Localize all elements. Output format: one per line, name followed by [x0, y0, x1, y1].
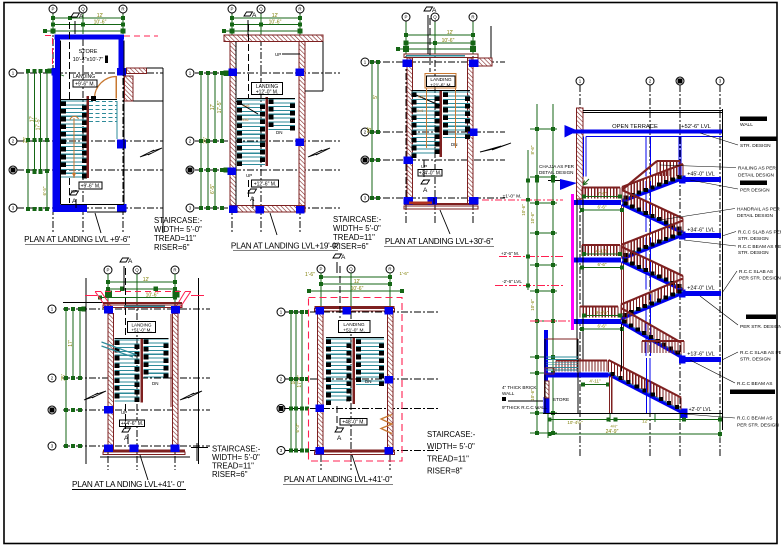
svg-text:STR. DESIGN: STR. DESIGN	[740, 357, 771, 363]
svg-text:R: R	[173, 268, 176, 273]
svg-text:A: A	[252, 12, 257, 19]
svg-text:10'-6": 10'-6"	[521, 204, 526, 216]
svg-text:+24'-0" M.: +24'-0" M.	[419, 170, 442, 176]
svg-text:RISER=8": RISER=8"	[427, 467, 463, 476]
svg-text:STR. DESIGN: STR. DESIGN	[740, 143, 771, 149]
svg-text:WIDTH= 5'-0": WIDTH= 5'-0"	[333, 224, 381, 233]
svg-text:9x6: 9x6	[243, 103, 250, 108]
svg-text:10'-6": 10'-6"	[351, 286, 364, 292]
svg-text:PLAN AT LANDING LVL+19'-0": PLAN AT LANDING LVL+19'-0"	[231, 242, 340, 251]
svg-text:STORE: STORE	[553, 397, 569, 403]
svg-text:OPEN TERRACE: OPEN TERRACE	[612, 124, 658, 130]
svg-text:RISER=6": RISER=6"	[333, 242, 369, 251]
svg-text:+48'-0" M.: +48'-0" M.	[342, 419, 365, 425]
svg-text:R: R	[471, 15, 474, 20]
svg-text:Q: Q	[81, 7, 85, 12]
svg-text:LANDING: LANDING	[73, 74, 95, 80]
svg-text:DETAIL DESIGN: DETAIL DESIGN	[738, 173, 775, 179]
svg-text:+12'-0" M.: +12'-0" M.	[256, 90, 279, 96]
svg-text:PER STR. DESIGN: PER STR. DESIGN	[737, 423, 779, 429]
svg-text:A: A	[79, 13, 84, 20]
svg-text:A: A	[337, 435, 342, 442]
svg-text:P: P	[52, 7, 55, 12]
svg-text:HANDRAIL AS PER: HANDRAIL AS PER	[737, 207, 780, 213]
svg-text:-2'-6" LVL: -2'-6" LVL	[502, 279, 522, 284]
svg-text:UP: UP	[275, 52, 281, 57]
svg-text:9'-4½": 9'-4½"	[596, 309, 609, 315]
svg-text:PLAN AT LANDING LVL+41'-0": PLAN AT LANDING LVL+41'-0"	[284, 475, 393, 484]
svg-text:TREAD=11": TREAD=11"	[154, 234, 196, 243]
svg-text:UP: UP	[246, 173, 252, 178]
svg-text:WALL: WALL	[502, 391, 515, 396]
svg-text:7'-6": 7'-6"	[598, 191, 607, 196]
svg-text:DETAIL DESIGN: DETAIL DESIGN	[737, 213, 774, 219]
svg-text:Q: Q	[259, 7, 263, 12]
svg-text:PER DESIGN: PER DESIGN	[740, 188, 770, 194]
svg-text:R.C.C SLAB AS PER: R.C.C SLAB AS PER	[738, 229, 781, 235]
svg-text:CHAJJA AS PER: CHAJJA AS PER	[539, 164, 575, 169]
svg-text:9"THICK R.C.C WALL: 9"THICK R.C.C WALL	[502, 405, 548, 410]
svg-text:STR. DESIGN: STR. DESIGN	[738, 250, 769, 256]
svg-text:4½": 4½"	[611, 424, 619, 429]
svg-text:A: A	[341, 254, 346, 261]
svg-text:6'-6": 6'-6"	[598, 205, 607, 210]
svg-text:RISER=6": RISER=6"	[154, 243, 190, 252]
svg-text:STR. DESIGN: STR. DESIGN	[738, 236, 769, 242]
svg-text:+24'-0" LVL: +24'-0" LVL	[687, 286, 715, 292]
svg-text:+34'-6" LVL: +34'-6" LVL	[687, 228, 715, 234]
svg-text:Q: Q	[433, 15, 437, 20]
svg-text:DN: DN	[276, 130, 283, 135]
svg-text:4'-11": 4'-11"	[589, 379, 601, 384]
svg-text:10'-4"x10'-7": 10'-4"x10'-7"	[73, 57, 104, 63]
svg-text:17'-5": 17'-5"	[36, 117, 42, 130]
svg-text:6'-6": 6'-6"	[598, 262, 607, 267]
svg-text:TREAD=11": TREAD=11"	[333, 233, 375, 242]
svg-text:STAIRCASE:-: STAIRCASE:-	[154, 216, 203, 225]
svg-text:DN: DN	[365, 379, 372, 384]
svg-text:+51'-0" M.: +51'-0" M.	[131, 328, 151, 333]
svg-text:P: P	[320, 267, 323, 272]
svg-text:1'-6": 1'-6"	[400, 271, 409, 276]
svg-text:DETAIL DESIGN: DETAIL DESIGN	[539, 170, 573, 175]
svg-text:6'-3": 6'-3"	[295, 423, 300, 432]
svg-text:R.C.C SLAB AS PER: R.C.C SLAB AS PER	[740, 350, 781, 356]
svg-text:10'-6": 10'-6"	[530, 389, 535, 401]
svg-text:10'-6": 10'-6"	[442, 38, 455, 44]
svg-text:WALL: WALL	[740, 122, 753, 128]
svg-text:24'-9": 24'-9"	[606, 429, 619, 435]
svg-text:PLAN AT LANDING LVL+30'-6": PLAN AT LANDING LVL+30'-6"	[385, 237, 494, 246]
svg-text:DN: DN	[451, 142, 458, 147]
svg-text:+9'-6" M.: +9'-6" M.	[75, 81, 95, 87]
svg-text:12': 12'	[447, 30, 454, 36]
svg-text:10'-6": 10'-6"	[530, 299, 535, 311]
svg-text:PLAN AT LA NDING LVL+41'- 0": PLAN AT LA NDING LVL+41'- 0"	[72, 480, 184, 489]
svg-text:R.C.C SLAB AS: R.C.C SLAB AS	[739, 269, 773, 275]
svg-text:10'-6": 10'-6"	[269, 20, 282, 26]
svg-text:A: A	[250, 196, 255, 203]
svg-text:9x6: 9x6	[418, 94, 425, 99]
svg-text:TREAD=11": TREAD=11"	[427, 454, 469, 463]
svg-text:9x6: 9x6	[417, 108, 424, 113]
svg-text:+44'-6" M.: +44'-6" M.	[121, 421, 144, 427]
svg-text:RISER=6": RISER=6"	[212, 470, 248, 479]
svg-text:PLAN AT LANDING LVL +9'-6": PLAN AT LANDING LVL +9'-6"	[24, 235, 130, 244]
svg-text:12': 12'	[143, 277, 150, 283]
svg-text:12': 12'	[642, 419, 648, 424]
svg-text:±1'-0" M.: ±1'-0" M.	[503, 194, 522, 200]
svg-text:STAIRCASE:-: STAIRCASE:-	[427, 430, 476, 439]
svg-text:R.C.C BEAM AS: R.C.C BEAM AS	[737, 381, 772, 387]
svg-text:17': 17'	[68, 340, 74, 347]
svg-text:+2'-6" M.: +2'-6" M.	[501, 251, 519, 256]
svg-text:+52'-6" LVL: +52'-6" LVL	[681, 124, 711, 130]
svg-text:PER STR. DESIGN: PER STR. DESIGN	[740, 324, 781, 330]
svg-text:A: A	[432, 7, 437, 14]
svg-text:6'-5": 6'-5"	[210, 184, 216, 194]
svg-text:R.C.C BEAM AS: R.C.C BEAM AS	[737, 416, 772, 422]
svg-text:R: R	[298, 7, 301, 12]
svg-text:WIDTH= 5'-0": WIDTH= 5'-0"	[154, 225, 202, 234]
svg-text:STORE: STORE	[79, 49, 98, 55]
svg-text:4" THICK BRICK: 4" THICK BRICK	[502, 385, 537, 390]
svg-text:6'-6": 6'-6"	[598, 324, 607, 329]
svg-text:17'-5": 17'-5"	[217, 100, 223, 113]
svg-text:R: R	[121, 7, 124, 12]
svg-text:9x6: 9x6	[242, 117, 249, 122]
svg-text:5': 5'	[373, 95, 379, 99]
svg-text:R.C.C BEAM AS PER: R.C.C BEAM AS PER	[738, 244, 781, 250]
svg-text:P: P	[405, 15, 408, 20]
svg-text:LANDING: LANDING	[430, 77, 452, 83]
svg-text:+45'-0" LVL: +45'-0" LVL	[687, 172, 715, 178]
svg-text:UP: UP	[346, 398, 352, 403]
svg-text:+2'-0" LVL: +2'-0" LVL	[689, 407, 712, 413]
svg-text:17': 17'	[210, 104, 216, 111]
svg-text:10'-4½": 10'-4½"	[567, 419, 583, 425]
svg-text:8'-6": 8'-6"	[530, 145, 535, 154]
svg-text:WIDTH= 5'-0": WIDTH= 5'-0"	[427, 442, 475, 451]
svg-text:12': 12'	[272, 13, 279, 19]
svg-text:17'-3": 17'-3"	[297, 375, 303, 388]
svg-text:12': 12'	[354, 279, 361, 285]
svg-text:A: A	[423, 187, 428, 194]
svg-text:Q: Q	[349, 267, 353, 272]
svg-text:10'-6": 10'-6"	[146, 293, 159, 299]
svg-text:RAILING AS PER: RAILING AS PER	[738, 166, 776, 172]
svg-text:+21'-6" M.: +21'-6" M.	[430, 83, 452, 89]
svg-text:PER STR. DESIGN: PER STR. DESIGN	[739, 276, 781, 282]
svg-text:6'-5": 6'-5"	[42, 186, 47, 195]
svg-text:DN: DN	[152, 381, 159, 386]
svg-text:+51'-0" M.: +51'-0" M.	[343, 328, 365, 334]
svg-text:12': 12'	[97, 13, 104, 19]
svg-text:STAIRCASE:-: STAIRCASE:-	[333, 215, 382, 224]
svg-text:P: P	[231, 7, 234, 12]
svg-text:LANDING: LANDING	[343, 322, 365, 328]
svg-text:10'-6": 10'-6"	[530, 212, 535, 224]
svg-text:+12'-6" M.: +12'-6" M.	[254, 181, 277, 187]
svg-text:UP: UP	[121, 410, 127, 415]
svg-text:4'-1½": 4'-1½"	[596, 248, 609, 254]
svg-text:Q: Q	[135, 268, 139, 273]
svg-text:A: A	[128, 258, 133, 265]
svg-text:+13'-6" LVL: +13'-6" LVL	[687, 352, 715, 358]
svg-text:+9'-6" M.: +9'-6" M.	[81, 183, 101, 189]
svg-text:R: R	[388, 267, 391, 272]
svg-text:1'-6": 1'-6"	[305, 272, 315, 278]
svg-text:10'-6": 10'-6"	[94, 20, 107, 26]
svg-text:P: P	[107, 268, 110, 273]
